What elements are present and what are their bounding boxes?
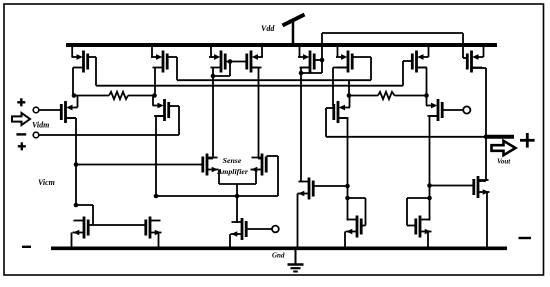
svg-text:Sense: Sense — [223, 156, 242, 165]
svg-text:Vidm: Vidm — [32, 121, 49, 130]
svg-text:Vicm: Vicm — [38, 178, 55, 187]
svg-text:Gnd: Gnd — [272, 252, 285, 260]
svg-text:Vdd: Vdd — [261, 24, 275, 33]
svg-text:Vout: Vout — [497, 158, 511, 166]
svg-text:Amplifier: Amplifier — [216, 167, 249, 176]
